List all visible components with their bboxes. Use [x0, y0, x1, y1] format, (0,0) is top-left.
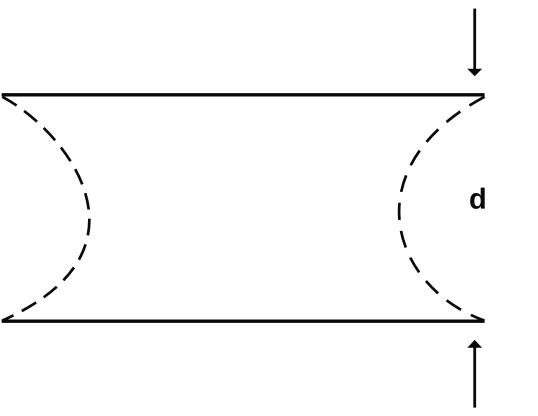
- bottom arrow: [467, 340, 482, 408]
- top plate: [2, 93, 485, 96]
- label d: [470, 188, 485, 209]
- bottom plate: [2, 320, 485, 323]
- top arrow: [467, 9, 482, 77]
- right dashed arc: [399, 97, 484, 321]
- left dashed arc: [2, 97, 89, 321]
